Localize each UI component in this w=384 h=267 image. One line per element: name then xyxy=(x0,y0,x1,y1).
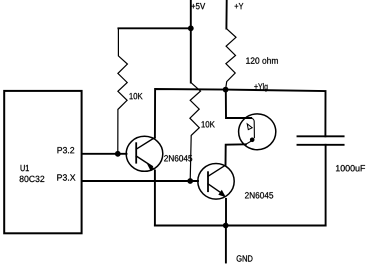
transistor Q1 base bar xyxy=(135,143,137,163)
lamp DS1 tail xyxy=(246,142,251,145)
lamp DS1 filament xyxy=(251,118,255,138)
label 2N6045 xyxy=(245,192,273,198)
label P3.2 xyxy=(58,147,75,153)
transistor Q2 base bar xyxy=(207,172,209,191)
resistor R3 120 ohm xyxy=(226,29,236,90)
transistor Q1 emitter arrow xyxy=(147,164,154,171)
lamp DS1 cathode dot xyxy=(250,138,255,143)
lamp DS1 arrow xyxy=(247,124,252,130)
wire lamp top feed xyxy=(226,90,251,118)
label 10K xyxy=(202,121,215,127)
transistor Q2 emitter arrow xyxy=(218,190,226,198)
wire lamp bottom feed xyxy=(226,144,246,165)
capacitor C1 top plate xyxy=(298,135,344,137)
label P3.X xyxy=(57,174,75,180)
IC U1 box xyxy=(4,91,81,233)
wire +Y rail xyxy=(225,1,227,29)
node +Ylg junction xyxy=(223,87,229,93)
lamp DS1 circle xyxy=(239,114,276,150)
label U1 xyxy=(21,165,29,171)
wire +5V to R1 xyxy=(118,27,190,29)
ground stem wire xyxy=(225,226,227,263)
capacitor C1 bottom plate xyxy=(298,144,344,146)
label GND xyxy=(237,255,253,261)
node R1/P3.2 junction xyxy=(115,151,121,157)
wire Q1 collector up xyxy=(155,89,226,138)
transistor Q1 circle xyxy=(126,136,163,171)
label +Y xyxy=(235,3,244,9)
wire +5V rail xyxy=(190,1,192,83)
resistor R1 10K xyxy=(118,28,128,154)
wire Q2 emitter down xyxy=(225,199,227,226)
node +5V rail junction xyxy=(188,25,194,31)
wire P3.2 xyxy=(82,153,127,155)
label 80C32 xyxy=(20,176,45,182)
wire Q1 emitter down xyxy=(154,171,156,226)
transistor Q1 emitter diag xyxy=(136,156,152,167)
wire +Ylg to capacitor xyxy=(226,90,326,137)
label 2N6045 xyxy=(164,155,192,161)
bottom rail wire xyxy=(155,225,326,227)
resistor R2 10K xyxy=(190,83,201,182)
node ground junction xyxy=(223,223,229,229)
transistor Q1 collector diag xyxy=(136,138,155,150)
label 120 ohm xyxy=(246,57,278,64)
label 10K xyxy=(130,93,143,99)
node R2/P3.X junction xyxy=(187,178,193,184)
wire P3.X xyxy=(82,180,198,182)
wire capacitor to bottom rail xyxy=(325,145,327,226)
label +5V xyxy=(191,3,205,9)
label +Ylg xyxy=(254,83,267,91)
transistor Q2 circle xyxy=(198,164,234,200)
transistor Q2 emitter diag xyxy=(208,184,224,195)
transistor Q2 collector diag xyxy=(208,165,225,176)
label 1000uF xyxy=(336,165,365,171)
